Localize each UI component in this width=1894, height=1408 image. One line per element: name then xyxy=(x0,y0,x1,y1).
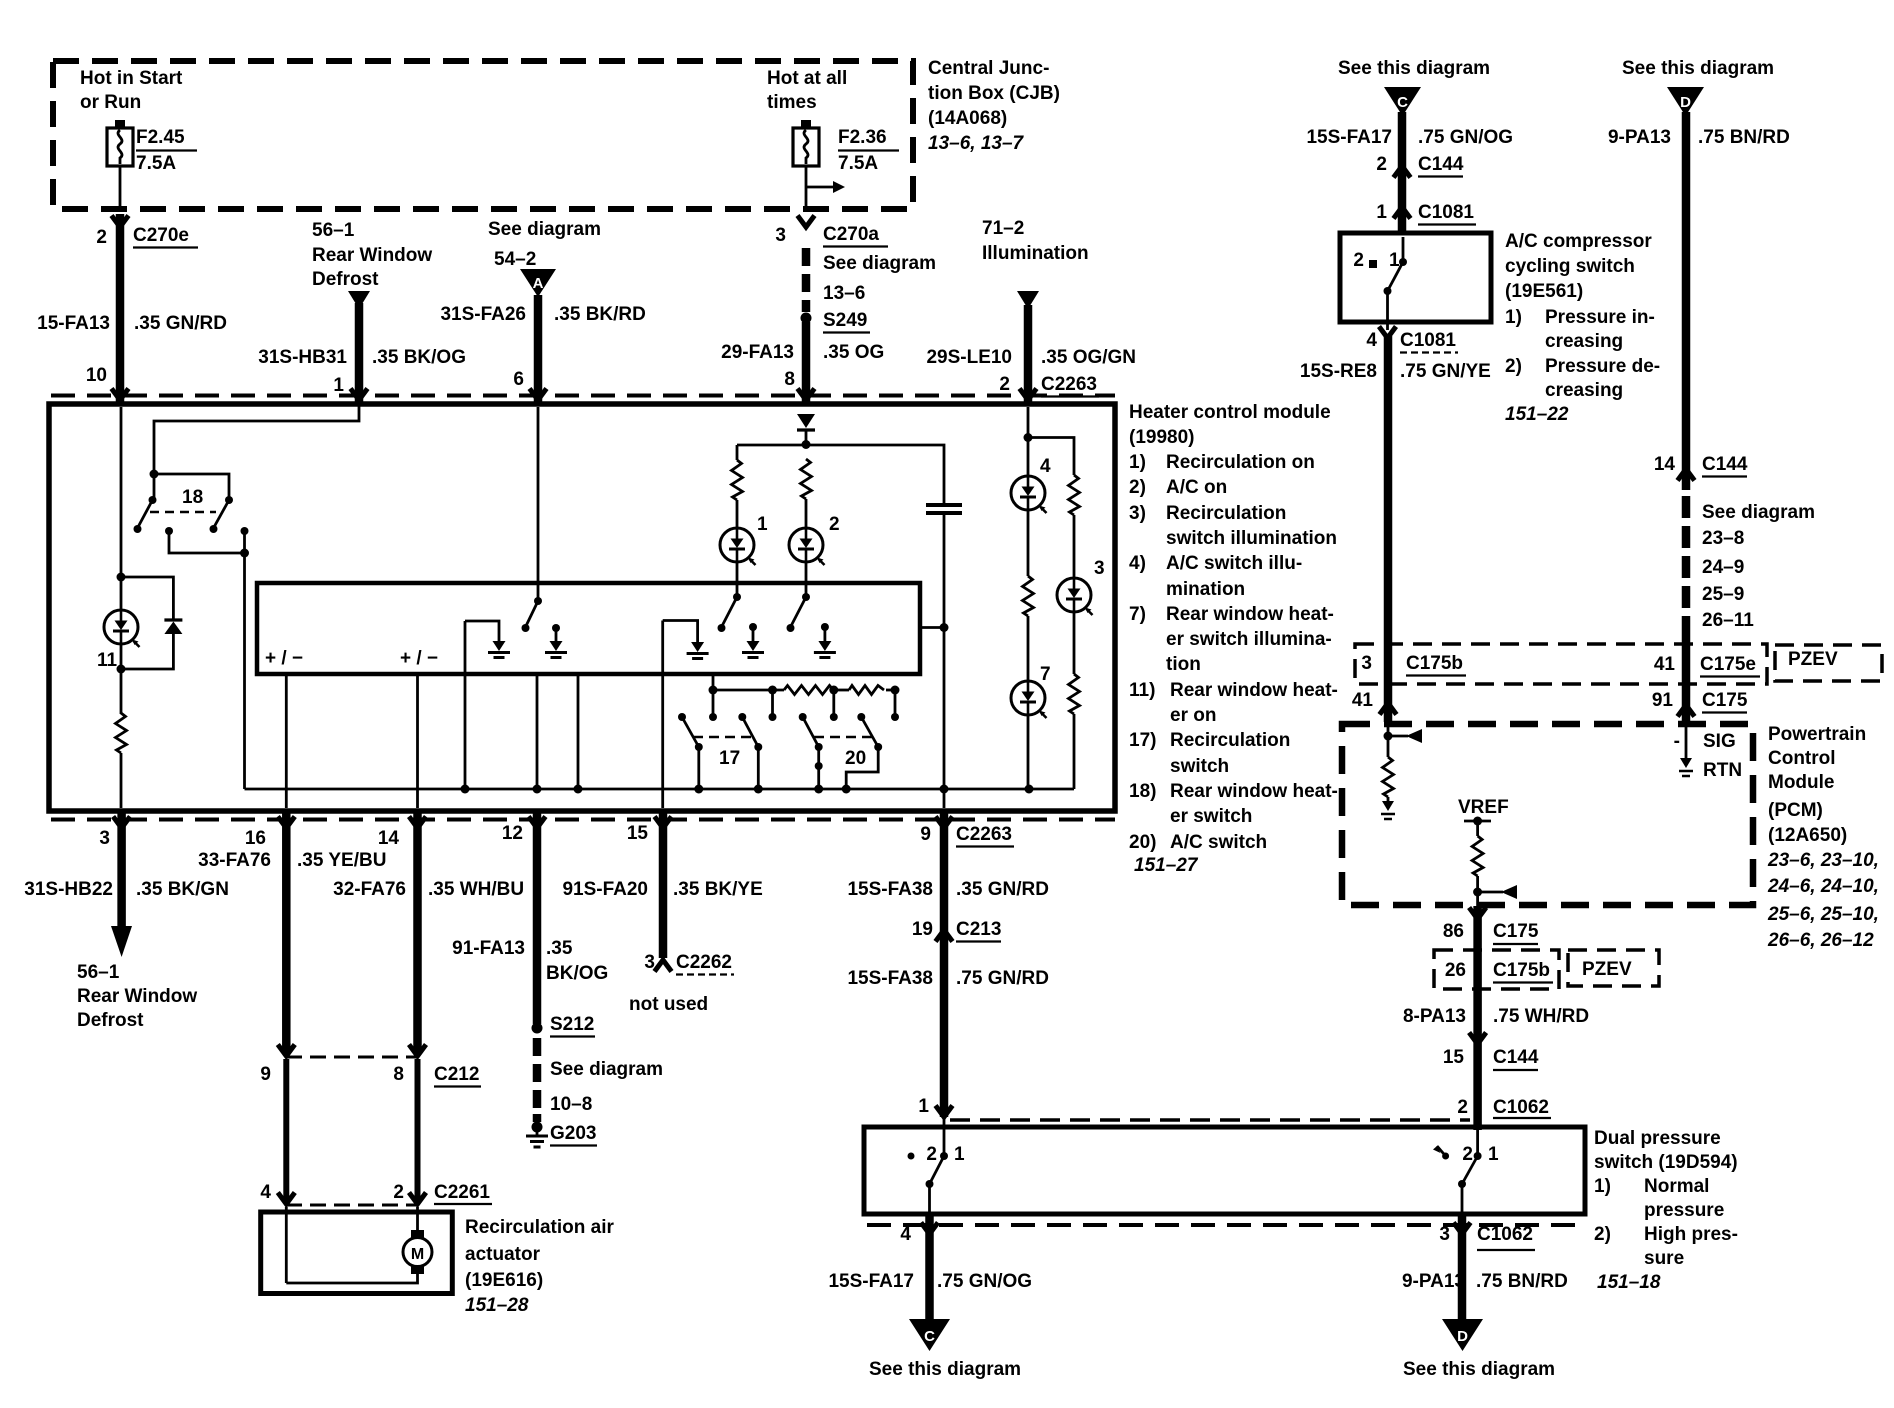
svg-text:A/C compressor: A/C compressor xyxy=(1505,231,1652,252)
svg-text:C175b: C175b xyxy=(1406,653,1463,674)
svg-text:(19E561): (19E561) xyxy=(1505,281,1583,302)
svg-text:1: 1 xyxy=(1488,1144,1499,1165)
svg-text:15S-RE8: 15S-RE8 xyxy=(1300,361,1377,382)
svg-text:G203: G203 xyxy=(550,1123,596,1144)
svg-text:Heater control module: Heater control module xyxy=(1129,402,1331,423)
svg-text:.75 BN/RD: .75 BN/RD xyxy=(1476,1271,1568,1292)
svg-text:16: 16 xyxy=(245,828,266,849)
svg-text:7: 7 xyxy=(1040,664,1051,685)
svg-text:.75 GN/YE: .75 GN/YE xyxy=(1400,361,1491,382)
svg-text:20): 20) xyxy=(1129,832,1156,853)
svg-text:not used: not used xyxy=(629,994,708,1015)
svg-text:18: 18 xyxy=(182,487,203,508)
svg-text:Dual pressure: Dual pressure xyxy=(1594,1128,1721,1149)
svg-text:13–6: 13–6 xyxy=(823,283,865,304)
svg-text:2: 2 xyxy=(1462,1144,1473,1165)
svg-text:23–8: 23–8 xyxy=(1702,528,1744,549)
svg-text:C: C xyxy=(1397,94,1408,111)
svg-text:24–6, 24–10,: 24–6, 24–10, xyxy=(1767,876,1879,897)
svg-text:Normal: Normal xyxy=(1644,1176,1709,1197)
svg-text:14: 14 xyxy=(1654,454,1676,475)
svg-text:A/C switch: A/C switch xyxy=(1170,832,1267,853)
svg-text:See this diagram: See this diagram xyxy=(869,1359,1021,1380)
svg-text:15: 15 xyxy=(627,823,649,844)
svg-text:8: 8 xyxy=(784,369,795,390)
svg-text:12: 12 xyxy=(502,823,523,844)
svg-text:SIG: SIG xyxy=(1703,731,1736,752)
svg-text:Recirculation on: Recirculation on xyxy=(1166,452,1315,473)
svg-text:See this diagram: See this diagram xyxy=(1403,1359,1555,1380)
svg-text:1): 1) xyxy=(1594,1176,1611,1197)
svg-text:.35 BK/YE: .35 BK/YE xyxy=(673,879,763,900)
svg-text:.35 OG/GN: .35 OG/GN xyxy=(1041,347,1136,368)
svg-text:11): 11) xyxy=(1129,680,1155,701)
svg-text:times: times xyxy=(767,92,817,113)
svg-text:sure: sure xyxy=(1644,1248,1684,1269)
svg-text:3: 3 xyxy=(1439,1224,1450,1245)
svg-text:26–11: 26–11 xyxy=(1702,610,1754,631)
svg-text:C175e: C175e xyxy=(1700,654,1756,675)
svg-text:11: 11 xyxy=(97,650,118,671)
svg-text:C212: C212 xyxy=(434,1064,479,1085)
svg-text:10–8: 10–8 xyxy=(550,1094,592,1115)
svg-text:91S-FA20: 91S-FA20 xyxy=(562,879,648,900)
svg-text:.35 BK/OG: .35 BK/OG xyxy=(372,347,466,368)
svg-text:Rear window heat-: Rear window heat- xyxy=(1170,781,1338,802)
svg-text:.35 GN/RD: .35 GN/RD xyxy=(134,313,227,334)
svg-text:F2.45: F2.45 xyxy=(136,127,185,148)
svg-text:C270a: C270a xyxy=(823,224,879,245)
svg-text:3: 3 xyxy=(644,952,655,973)
svg-text:25–6, 25–10,: 25–6, 25–10, xyxy=(1767,904,1879,925)
svg-text:creasing: creasing xyxy=(1545,380,1623,401)
svg-text:actuator: actuator xyxy=(465,1244,541,1265)
svg-text:PZEV: PZEV xyxy=(1788,649,1838,670)
svg-text:33-FA76: 33-FA76 xyxy=(198,850,271,871)
svg-text:See diagram: See diagram xyxy=(550,1059,663,1080)
svg-text:25–9: 25–9 xyxy=(1702,584,1744,605)
svg-text:Module: Module xyxy=(1768,772,1835,793)
svg-text:9-PA13: 9-PA13 xyxy=(1402,1271,1465,1292)
svg-text:14: 14 xyxy=(378,828,400,849)
svg-text:3: 3 xyxy=(1094,558,1105,579)
svg-text:17: 17 xyxy=(719,748,740,769)
svg-text:.75 WH/RD: .75 WH/RD xyxy=(1493,1006,1589,1027)
svg-text:31S-HB22: 31S-HB22 xyxy=(24,879,113,900)
svg-text:4: 4 xyxy=(260,1182,271,1203)
svg-text:-: - xyxy=(1674,731,1680,752)
svg-text:Central Junc-: Central Junc- xyxy=(928,58,1049,79)
svg-text:C144: C144 xyxy=(1418,154,1464,175)
svg-text:pressure: pressure xyxy=(1644,1200,1724,1221)
svg-text:1: 1 xyxy=(1389,250,1400,271)
svg-text:56–1: 56–1 xyxy=(312,220,355,241)
svg-text:.75 GN/OG: .75 GN/OG xyxy=(937,1271,1032,1292)
svg-text:Pressure de-: Pressure de- xyxy=(1545,356,1660,377)
svg-text:C175b: C175b xyxy=(1493,960,1550,981)
svg-text:switch: switch xyxy=(1170,756,1229,777)
svg-text:151–28: 151–28 xyxy=(465,1295,529,1316)
svg-text:1: 1 xyxy=(954,1144,965,1165)
svg-text:S249: S249 xyxy=(823,310,867,331)
svg-text:D: D xyxy=(1457,1328,1468,1345)
svg-text:C2261: C2261 xyxy=(434,1182,490,1203)
svg-text:13–6, 13–7: 13–6, 13–7 xyxy=(928,133,1025,154)
svg-text:.35 WH/BU: .35 WH/BU xyxy=(428,879,524,900)
svg-text:C2263: C2263 xyxy=(956,824,1012,845)
svg-text:2: 2 xyxy=(393,1182,404,1203)
svg-text:2: 2 xyxy=(96,227,107,248)
svg-text:.35 OG: .35 OG xyxy=(823,342,884,363)
svg-text:8-PA13: 8-PA13 xyxy=(1403,1006,1466,1027)
svg-text:7.5A: 7.5A xyxy=(136,153,176,174)
svg-text:2): 2) xyxy=(1594,1224,1611,1245)
svg-text:switch illumination: switch illumination xyxy=(1166,528,1337,549)
svg-text:56–1: 56–1 xyxy=(77,962,120,983)
svg-text:2: 2 xyxy=(1457,1097,1468,1118)
svg-text:cycling switch: cycling switch xyxy=(1505,256,1635,277)
svg-text:Control: Control xyxy=(1768,748,1836,769)
svg-text:3: 3 xyxy=(1361,653,1372,674)
svg-text:.75 GN/RD: .75 GN/RD xyxy=(956,968,1049,989)
svg-text:32-FA76: 32-FA76 xyxy=(333,879,406,900)
svg-text:31S-HB31: 31S-HB31 xyxy=(258,347,347,368)
svg-text:RTN: RTN xyxy=(1703,760,1742,781)
svg-text:1): 1) xyxy=(1505,307,1522,328)
svg-text:3: 3 xyxy=(775,225,786,246)
svg-text:See diagram: See diagram xyxy=(823,253,936,274)
svg-text:C144: C144 xyxy=(1493,1047,1539,1068)
svg-text:tion: tion xyxy=(1166,654,1201,675)
svg-text:A/C switch illu-: A/C switch illu- xyxy=(1166,553,1302,574)
svg-text:er on: er on xyxy=(1170,705,1216,726)
svg-text:C270e: C270e xyxy=(133,225,189,246)
svg-text:23–6, 23–10,: 23–6, 23–10, xyxy=(1767,850,1879,871)
svg-text:91-FA13: 91-FA13 xyxy=(452,938,525,959)
svg-text:C1062: C1062 xyxy=(1477,1224,1533,1245)
svg-text:S212: S212 xyxy=(550,1014,594,1035)
svg-text:Powertrain: Powertrain xyxy=(1768,724,1866,745)
svg-text:(19E616): (19E616) xyxy=(465,1270,543,1291)
svg-text:4): 4) xyxy=(1129,553,1146,574)
svg-text:(14A068): (14A068) xyxy=(928,108,1007,129)
svg-text:See this diagram: See this diagram xyxy=(1622,58,1774,79)
svg-text:9: 9 xyxy=(260,1064,271,1085)
svg-text:4: 4 xyxy=(1366,330,1377,351)
svg-text:2: 2 xyxy=(999,374,1010,395)
svg-text:3): 3) xyxy=(1129,503,1146,524)
svg-text:Defrost: Defrost xyxy=(312,269,379,290)
svg-text:.75 BN/RD: .75 BN/RD xyxy=(1698,127,1790,148)
svg-text:F2.36: F2.36 xyxy=(838,127,887,148)
svg-text:15: 15 xyxy=(1443,1047,1465,1068)
svg-text:C1081: C1081 xyxy=(1400,330,1456,351)
svg-text:er switch: er switch xyxy=(1170,806,1252,827)
svg-text:6: 6 xyxy=(513,369,524,390)
svg-text:20: 20 xyxy=(845,748,866,769)
svg-text:.75 GN/OG: .75 GN/OG xyxy=(1418,127,1513,148)
svg-text:8: 8 xyxy=(393,1064,404,1085)
svg-text:15S-FA17: 15S-FA17 xyxy=(828,1271,914,1292)
svg-text:C175: C175 xyxy=(1702,690,1748,711)
svg-text:2): 2) xyxy=(1129,477,1146,498)
svg-text:7): 7) xyxy=(1129,604,1146,625)
svg-text:Recirculation: Recirculation xyxy=(1170,730,1290,751)
svg-text:Recirculation air: Recirculation air xyxy=(465,1217,614,1238)
svg-text:Rear Window: Rear Window xyxy=(312,245,432,266)
svg-text:151–27: 151–27 xyxy=(1134,855,1199,876)
svg-text:BK/OG: BK/OG xyxy=(546,963,608,984)
svg-text:2: 2 xyxy=(829,514,840,535)
svg-text:.35 BK/RD: .35 BK/RD xyxy=(554,304,646,325)
svg-text:1: 1 xyxy=(757,514,768,535)
svg-text:2: 2 xyxy=(926,1144,937,1165)
svg-text:Illumination: Illumination xyxy=(982,243,1089,264)
svg-text:15S-FA38: 15S-FA38 xyxy=(847,968,933,989)
svg-text:M: M xyxy=(411,1246,424,1263)
svg-text:151–22: 151–22 xyxy=(1505,404,1569,425)
svg-text:C175: C175 xyxy=(1493,921,1539,942)
svg-text:Rear Window: Rear Window xyxy=(77,986,197,1007)
svg-text:er switch illumina-: er switch illumina- xyxy=(1166,629,1332,650)
svg-text:.35 GN/RD: .35 GN/RD xyxy=(956,879,1049,900)
svg-text:A: A xyxy=(533,275,544,292)
svg-text:mination: mination xyxy=(1166,579,1245,600)
svg-text:17): 17) xyxy=(1129,730,1156,751)
svg-text:151–18: 151–18 xyxy=(1597,1272,1661,1293)
svg-text:26–6, 26–12: 26–6, 26–12 xyxy=(1767,930,1874,951)
svg-text:or Run: or Run xyxy=(80,92,141,113)
svg-text:2: 2 xyxy=(1353,250,1364,271)
svg-text:D: D xyxy=(1680,94,1691,111)
svg-text:2): 2) xyxy=(1505,356,1522,377)
svg-text:15-FA13: 15-FA13 xyxy=(37,313,110,334)
svg-text:Hot at all: Hot at all xyxy=(767,68,847,89)
svg-text:1): 1) xyxy=(1129,452,1146,473)
svg-text:31S-FA26: 31S-FA26 xyxy=(440,304,526,325)
svg-text:(19980): (19980) xyxy=(1129,427,1195,448)
svg-text:C2262: C2262 xyxy=(676,952,732,973)
svg-text:C1062: C1062 xyxy=(1493,1097,1549,1118)
svg-text:C: C xyxy=(924,1328,935,1345)
svg-text:VREF: VREF xyxy=(1458,797,1509,818)
svg-text:Defrost: Defrost xyxy=(77,1010,144,1031)
svg-text:7.5A: 7.5A xyxy=(838,153,878,174)
svg-text:switch (19D594): switch (19D594) xyxy=(1594,1152,1738,1173)
svg-text:26: 26 xyxy=(1445,960,1466,981)
svg-text:54–2: 54–2 xyxy=(494,249,536,270)
svg-text:4: 4 xyxy=(1040,456,1051,477)
svg-text:C213: C213 xyxy=(956,919,1001,940)
svg-text:Recirculation: Recirculation xyxy=(1166,503,1286,524)
svg-text:creasing: creasing xyxy=(1545,331,1623,352)
svg-text:29-FA13: 29-FA13 xyxy=(721,342,794,363)
svg-text:19: 19 xyxy=(912,919,933,940)
svg-text:3: 3 xyxy=(99,828,110,849)
svg-text:24–9: 24–9 xyxy=(1702,557,1744,578)
svg-text:.35 BK/GN: .35 BK/GN xyxy=(136,879,229,900)
svg-text:.35: .35 xyxy=(546,938,573,959)
svg-text:C1081: C1081 xyxy=(1418,202,1474,223)
svg-text:tion Box (CJB): tion Box (CJB) xyxy=(928,83,1060,104)
svg-text:41: 41 xyxy=(1352,690,1374,711)
svg-text:+ / −: + / − xyxy=(265,648,303,669)
svg-text:2: 2 xyxy=(1376,154,1387,175)
svg-text:41: 41 xyxy=(1654,654,1676,675)
svg-text:+ / −: + / − xyxy=(400,648,438,669)
svg-text:10: 10 xyxy=(86,365,107,386)
svg-text:See diagram: See diagram xyxy=(488,219,601,240)
svg-text:C144: C144 xyxy=(1702,454,1748,475)
svg-text:71–2: 71–2 xyxy=(982,218,1024,239)
svg-text:15S-FA38: 15S-FA38 xyxy=(847,879,933,900)
svg-text:See diagram: See diagram xyxy=(1702,502,1815,523)
svg-text:1: 1 xyxy=(918,1096,929,1117)
svg-text:See this diagram: See this diagram xyxy=(1338,58,1490,79)
svg-text:91: 91 xyxy=(1652,690,1674,711)
svg-text:High pres-: High pres- xyxy=(1644,1224,1738,1245)
svg-text:18): 18) xyxy=(1129,781,1156,802)
svg-text:Rear window heat-: Rear window heat- xyxy=(1170,680,1338,701)
svg-text:Hot in Start: Hot in Start xyxy=(80,68,183,89)
svg-text:9-PA13: 9-PA13 xyxy=(1608,127,1671,148)
svg-text:.35 YE/BU: .35 YE/BU xyxy=(297,850,386,871)
svg-text:9: 9 xyxy=(920,824,931,845)
svg-text:1: 1 xyxy=(1376,202,1387,223)
svg-text:(12A650): (12A650) xyxy=(1768,825,1847,846)
svg-text:Pressure in-: Pressure in- xyxy=(1545,307,1655,328)
svg-text:29S-LE10: 29S-LE10 xyxy=(926,347,1012,368)
svg-text:(PCM): (PCM) xyxy=(1768,800,1823,821)
svg-text:C2263: C2263 xyxy=(1041,374,1097,395)
svg-text:86: 86 xyxy=(1443,921,1464,942)
svg-text:1: 1 xyxy=(333,375,344,396)
svg-text:4: 4 xyxy=(900,1224,911,1245)
svg-text:PZEV: PZEV xyxy=(1582,959,1632,980)
svg-text:15S-FA17: 15S-FA17 xyxy=(1306,127,1392,148)
svg-text:Rear window heat-: Rear window heat- xyxy=(1166,604,1334,625)
svg-text:A/C on: A/C on xyxy=(1166,477,1227,498)
